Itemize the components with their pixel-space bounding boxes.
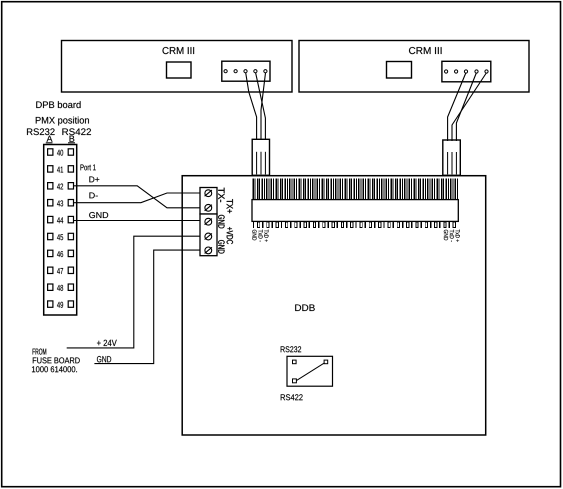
label +VDC — [227, 227, 233, 244]
CRM III unit 1 label — [162, 47, 194, 54]
DDB edge connector bottom pins — [253, 222, 456, 228]
RS422 column label — [62, 128, 91, 135]
screw terminal 3 (GND) — [205, 218, 212, 225]
part number 1000 614000. — [32, 366, 77, 372]
GND label (fuse wire) — [97, 356, 111, 362]
FROM label — [33, 349, 47, 355]
DPB pin row 49 — [48, 301, 74, 308]
DDB label — [295, 304, 315, 311]
DPB pin row 45 — [48, 233, 74, 240]
wire CRM2 pin3 to plug P2 — [448, 73, 466, 141]
wire GND to GND screw 5 — [94, 250, 200, 364]
pin label GND (right) — [444, 230, 448, 241]
DPB pin row 40 — [48, 149, 74, 156]
CRM III unit 1 enclosure — [62, 41, 293, 93]
DPB board label — [36, 101, 80, 108]
RS232/RS422 jumper box — [287, 356, 333, 386]
DPB pin row 47 — [48, 267, 74, 274]
CRM III unit 2 display window — [387, 62, 412, 79]
RS232 jumper label — [281, 346, 301, 352]
CRM III unit 1 connector J1 — [222, 61, 270, 81]
wire CRM1 pin5 to plug P1 — [261, 73, 266, 140]
column A header — [46, 136, 53, 143]
CRM III unit 1 display window — [167, 62, 192, 78]
pin label TxD+ (left) — [264, 230, 268, 242]
screw terminal 4 (+VDC) — [205, 233, 212, 240]
D- label — [89, 192, 97, 198]
screw terminal 5 (GND) — [205, 247, 212, 254]
cable plug P1 — [252, 139, 269, 175]
GND label (port wire) — [89, 212, 108, 218]
+24V label — [97, 340, 117, 346]
Port 1 label — [80, 164, 95, 170]
DDB edge connector top pins — [252, 179, 458, 200]
wire +24V to +VDC screw — [67, 236, 200, 348]
wire D+ from pin 42 to TX+ — [74, 186, 201, 208]
pin label TxD+ (right) — [456, 230, 460, 242]
CRM III unit 2 enclosure — [299, 41, 529, 93]
column B header — [68, 136, 75, 143]
RS232 column label — [27, 128, 55, 135]
label GND (screw 5) — [218, 240, 224, 253]
DPB pin row 46 — [48, 250, 74, 257]
pin label TxD- (left) — [259, 230, 263, 242]
FUSE BOARD label — [33, 357, 80, 363]
label TX+ — [227, 199, 233, 213]
screw terminal 2 (TX+) — [205, 204, 212, 211]
DPB pin row 41 — [48, 166, 74, 173]
label GND (screw 3) — [218, 215, 224, 228]
CRM III unit 2 label — [409, 47, 442, 54]
pin label TxD- (right) — [450, 230, 454, 242]
DDB board outline — [182, 176, 486, 435]
wire CRM1 pin4 to plug P1 — [256, 73, 266, 140]
terminal block TB lower section — [200, 214, 217, 256]
wire CRM2 pin5 to plug P2 — [452, 73, 486, 141]
pin label GND (left) — [252, 230, 256, 241]
wire CRM2 pin4 to plug P2 — [456, 73, 476, 141]
DDB edge connector body — [252, 200, 458, 222]
PMX position label — [36, 117, 89, 126]
terminal block TB upper section — [200, 188, 217, 215]
wire D- from pin 43 to TX- — [74, 193, 201, 203]
DPB pin row 42 — [48, 183, 74, 190]
DPB pin row 44 — [48, 216, 74, 223]
D+ label — [89, 176, 99, 182]
wire GND from pin 44 to GND screw — [74, 220, 201, 222]
cable plug P2 — [443, 140, 461, 175]
RS422 jumper label — [281, 394, 303, 400]
screw terminal 1 (TX-) — [205, 190, 212, 197]
label TX- — [218, 188, 224, 202]
DPB connector body — [44, 145, 77, 316]
wire CRM1 pin3 to plug P1 — [246, 73, 257, 140]
CRM III unit 2 connector J2 — [442, 61, 491, 82]
DPB pin row 48 — [48, 284, 74, 291]
DPB pin row 43 — [48, 200, 74, 207]
